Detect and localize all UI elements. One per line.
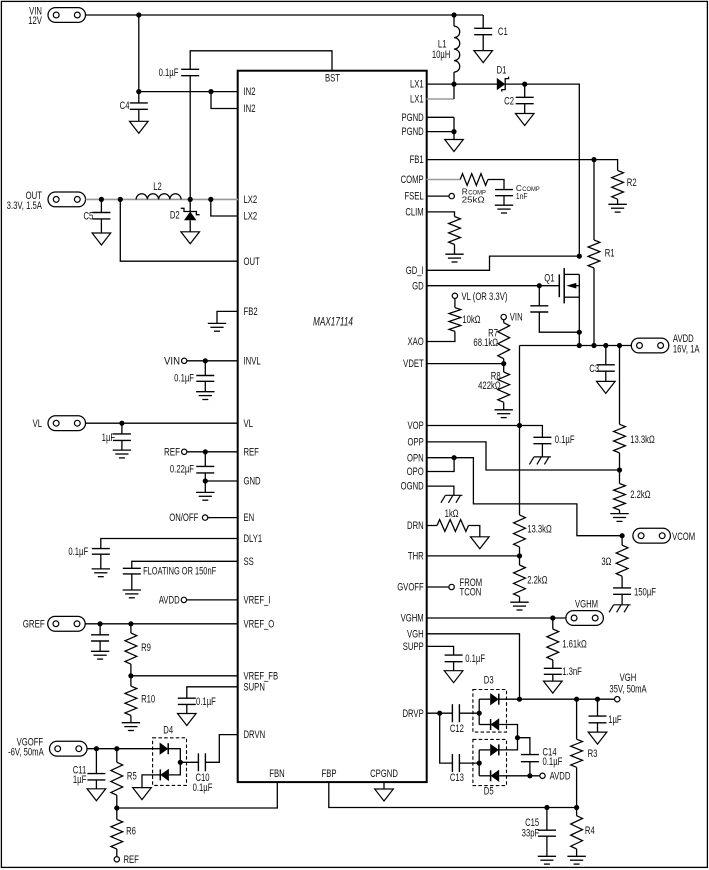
diode D3 upper [479,698,490,700]
svg-text:0.1µF: 0.1µF [174,372,194,385]
ground C5 [92,233,111,245]
svg-text:REF: REF [164,446,180,459]
svg-text:C2: C2 [504,95,514,108]
svg-text:SS: SS [244,556,254,569]
svg-text:1.3nF: 1.3nF [562,666,582,679]
wire D5 left leg [478,750,480,776]
ground CLIM resistor [445,253,463,255]
svg-text:GD_I: GD_I [406,265,424,278]
node junction VREF_FB [128,673,133,678]
capacitor C13 [451,754,453,772]
svg-text:LX1: LX1 [410,78,424,91]
svg-text:VIN: VIN [164,356,180,368]
resistor 13.3k VCOM upper [614,424,626,453]
connector J2 AVDD [631,338,669,353]
svg-text:CLIM: CLIM [405,206,423,219]
svg-text:VOP: VOP [407,420,423,433]
wire DRVN [205,735,238,763]
node junction D1-C2 [522,82,527,87]
resistor R2 [594,160,618,171]
resistor R3 [576,699,578,739]
svg-text:AVDD: AVDD [550,770,571,783]
wire PGND pin2 [427,131,455,133]
svg-text:R2: R2 [627,177,637,190]
svg-text:150µF: 150µF [634,586,656,599]
diode box D5 [473,739,507,785]
svg-text:C13: C13 [450,772,464,785]
node junction D5 leg [477,761,482,766]
wire LX1 pin1 [427,83,498,85]
svg-text:0.1µF: 0.1µF [68,546,88,559]
node junction VGHM [550,615,555,620]
svg-text:VL: VL [244,418,253,431]
wire D5 upper out [499,738,518,750]
wire C13 to D5 [459,762,479,764]
ground C15 [538,855,556,857]
node junction OPN-OPO [452,455,457,460]
svg-text:1nF: 1nF [516,191,528,201]
connector J4 VGHM [566,611,604,626]
ground CCOMP [495,204,513,206]
svg-text:10kΩ: 10kΩ [462,314,480,327]
node junction PGND [451,129,456,134]
node junction VDET [501,361,506,366]
diode D5 upper [479,749,490,751]
svg-text:C5: C5 [83,210,93,223]
svg-text:25kΩ: 25kΩ [462,195,485,204]
terminal REF stub [182,449,187,454]
resistor R6 [116,808,118,819]
capacitor C3 [605,346,607,365]
wire D4 lower gnd [142,775,160,788]
wire VGHM [427,617,566,619]
ground R8 [495,409,513,411]
terminal VIN INVL [182,358,187,363]
wire EN [208,517,238,519]
node junction THR [517,553,522,558]
svg-text:C12: C12 [450,723,464,736]
svg-text:VGH: VGH [407,628,424,641]
node junction rail-R1 [591,343,596,348]
capacitor REF 0.22uF [204,452,206,467]
node junction C11 [94,746,99,751]
wire LX2 rail (gray) [86,198,239,200]
node junction OUT feed [118,197,123,202]
wire FB2 [217,311,238,323]
svg-text:13.3kΩ: 13.3kΩ [527,523,552,536]
svg-text:68.1kΩ: 68.1kΩ [473,337,498,350]
wire GVOFF stub [427,586,449,588]
connector J3 VCOM [633,528,671,543]
connector J6 VL [48,416,86,431]
wire SUPP [427,646,454,655]
ground 1uF VGH [588,732,607,744]
wire PGND down [453,117,455,139]
svg-text:VIN: VIN [510,311,523,324]
svg-text:1µF: 1µF [73,774,87,787]
ground DLY1 cap [92,568,110,570]
connector J5 OUT [48,192,86,207]
wire C4 drop [138,15,140,92]
terminal GVOFF [449,584,454,589]
connector J8 VGOFF [50,741,88,756]
wire COMP (gray) [427,179,461,181]
svg-text:R10: R10 [141,693,155,706]
capacitor 1.3nF [544,667,562,669]
ground VCOM divider [610,513,628,515]
node junction VCOM [620,533,625,538]
capacitor DLY1 0.1uF [92,548,110,550]
svg-text:R4: R4 [585,825,595,838]
ground C2 [515,114,534,126]
wire D3 left leg [478,699,480,724]
ground 1.3nF [544,681,563,693]
ground FB2 [208,322,226,324]
svg-text:0.1µF: 0.1µF [196,696,216,709]
resistor R7 68.1k [503,320,505,323]
ground D2 [181,232,200,244]
node junction VOP [517,423,522,428]
svg-text:D2: D2 [170,209,180,222]
svg-text:3Ω: 3Ω [601,556,611,569]
ground SUPP cap [444,671,463,683]
wire VREF_O [85,623,238,625]
capacitor VL 1uF [121,423,123,434]
capacitor C4 [138,92,140,103]
node junction C14-AVDD [527,773,532,778]
wire PGND pin1 [427,116,455,118]
ground PGND [445,140,464,152]
wire LX2 pin2 link [211,199,238,216]
svg-text:OPO: OPO [407,466,424,479]
capacitor C10 0.1uF [180,761,198,763]
wire GD gate [427,285,560,287]
svg-text:0.1µF: 0.1µF [555,434,575,447]
node junction IN2 pins [208,89,213,94]
ground D4 [133,788,152,800]
terminal AVDD VREF_I [181,597,186,602]
capacitor BST 0.1uF [181,68,199,70]
resistor R1 [593,160,595,240]
resistor 1k DRN [437,520,469,532]
resistor R10 [130,676,132,686]
IC U1 MAX17114 body [238,71,427,782]
svg-text:1kΩ: 1kΩ [445,508,459,521]
svg-text:REF: REF [244,446,260,459]
resistor 2.2k THR lower [519,556,521,565]
resistor CLIM [449,217,461,245]
node junction OPP-divider [617,467,622,472]
ground DRN [471,537,490,549]
resistor R4 [576,808,578,816]
wire VL [86,422,239,424]
node junction FBP-R3R4 [574,805,579,810]
svg-text:INVL: INVL [244,355,261,368]
wire VIN rail [86,14,484,16]
ground INVL cap [196,391,214,393]
capacitor VOP 0.1uF [520,426,543,438]
node junction REF cap [203,449,208,454]
wire BST cap to LX2 [189,76,191,200]
capacitor C5 [100,199,102,212]
wire C12 to D3 [459,712,479,714]
svg-text:DRVP: DRVP [402,708,423,721]
wire VREF_I [187,599,238,601]
svg-text:IN2: IN2 [244,103,256,116]
svg-text:EN: EN [244,512,255,525]
ground VL cap [113,449,131,451]
resistor RCOMP 25k [460,174,488,186]
wire OPP [427,442,620,470]
node junction VGH-R3 [574,697,579,702]
node junction D2 [188,197,193,202]
svg-text:0.1µF: 0.1µF [543,756,563,769]
node junction cap-source [577,330,582,335]
wire CLIM [427,212,455,217]
resistor 3ohm [621,536,623,546]
svg-text:GVOFF: GVOFF [397,581,424,594]
node junction VGH-1uF [595,697,600,702]
capacitor C1 [482,15,484,28]
node junction VIN-L1 [451,12,456,17]
wire OUT pin [120,199,238,261]
svg-text:16V, 1A: 16V, 1A [673,343,700,356]
ground SS cap [123,589,141,591]
wire AVDD rail [520,345,632,347]
transistor Q1 PMOS [558,274,560,297]
svg-text:OPN: OPN [407,452,424,465]
terminal VGH output [615,697,620,702]
diode D5 lower [479,775,490,777]
resistor 10k XAO [454,299,456,308]
wire D1 out [505,84,579,256]
svg-text:0.1µF: 0.1µF [465,653,485,666]
resistor 2.2k VCOM lower [619,470,621,484]
wire rail to 13.3k [619,346,621,425]
ground CPGND [375,789,394,801]
node junction LX2 pins [208,197,213,202]
svg-text:D1: D1 [497,64,507,77]
wire THR [427,555,520,557]
svg-text:VCOM: VCOM [672,531,695,544]
ground R4 [567,855,585,857]
svg-text:BST: BST [325,72,340,85]
capacitor SUPN 0.1uF [178,697,196,699]
ground 150uF chassis [614,604,631,606]
svg-text:CPGND: CPGND [370,768,398,781]
svg-text:1.61kΩ: 1.61kΩ [562,638,587,651]
svg-text:R5: R5 [127,770,137,783]
svg-text:TCON: TCON [460,586,482,599]
svg-text:MAX17114: MAX17114 [313,316,353,329]
wire VGH [427,634,520,699]
node junction FB1 [591,157,596,162]
terminal FSEL [449,193,454,198]
connector J7 GREF [48,616,85,631]
terminal VIN R7 [501,314,506,319]
node junction C4-IN2 [136,89,141,94]
node junction D3-D5-C14 [515,735,520,740]
node junction GND [203,478,208,483]
svg-text:VGHM: VGHM [401,612,424,625]
svg-text:FBP: FBP [322,768,337,781]
svg-text:GREF: GREF [23,618,45,631]
node junction rail-C3 [603,343,608,348]
diode box D3 [473,690,507,733]
wire DLY1 [101,539,238,549]
inductor L2 [136,194,181,200]
wire OGND [427,486,454,495]
node junction D4 mid [178,760,183,765]
svg-text:PGND: PGND [401,112,423,125]
svg-text:422kΩ: 422kΩ [478,380,500,393]
node junction FBN-R6 [114,805,119,810]
wire INVL [187,360,238,362]
svg-text:REF: REF [124,854,140,867]
capacitor C11 1uF [95,749,97,774]
svg-text:AVDD: AVDD [159,594,180,607]
wire LX1 pin2 (gray) [427,98,455,100]
svg-text:FB1: FB1 [410,154,424,167]
wire DRVP [427,712,453,714]
svg-text:0.22µF: 0.22µF [170,463,194,476]
svg-text:L2: L2 [153,181,162,194]
svg-text:FB2: FB2 [244,306,258,319]
svg-text:12V: 12V [28,15,42,28]
node junction GD-cap [537,283,542,288]
capacitor Q1 gate-source [538,286,540,306]
wire DRN to gnd [469,526,480,537]
svg-text:OUT: OUT [244,256,260,269]
node junction C5 [99,197,104,202]
terminal VL (OR 3.3V) [452,293,457,298]
node junction rail-divider [617,343,622,348]
svg-text:VL: VL [33,418,42,431]
svg-text:VGHM: VGHM [575,598,598,611]
svg-text:COMP: COMP [401,174,424,187]
svg-text:3.3V, 1.5A: 3.3V, 1.5A [7,200,43,213]
wire VREF_FB [131,675,238,677]
wire CPGND [383,782,385,789]
capacitor 150uF [613,587,631,589]
svg-text:LX1: LX1 [410,93,424,106]
node junction R5 [114,746,119,751]
wire D5 lower out [499,775,540,777]
ground SUPN cap [178,714,197,726]
wire LX1 tie [453,84,455,99]
svg-text:XAO: XAO [407,336,423,349]
capacitor SS 150nF [123,567,141,569]
wire IN2 pin2 link [211,92,238,109]
svg-text:1µF: 1µF [102,432,116,445]
capacitor 1uF VGH [597,699,599,716]
capacitor C15 33pF [546,808,548,831]
wire DRN [427,525,438,527]
svg-text:LX2: LX2 [244,210,258,223]
wire REF [187,451,238,453]
svg-text:C1: C1 [498,26,508,39]
wire VGOFF [87,748,160,750]
svg-text:VDET: VDET [403,358,424,371]
resistor R8 422k [503,364,505,372]
capacitor C14 0.1uF [518,738,530,755]
ground C3 [597,381,616,393]
node junction VGH pin [517,697,522,702]
ground C1 [474,51,493,63]
diode D1 schottky [497,78,505,90]
node junction FBP-C15 [544,805,549,810]
wire Q1 source down [578,297,580,345]
wire D3 lower out [499,725,517,738]
capacitor INVL 0.1uF [204,361,206,376]
wire IN2 feed [139,91,238,93]
svg-text:D4: D4 [163,724,173,737]
diode D2 schottky [189,199,191,211]
svg-text:VL (OR 3.3V): VL (OR 3.3V) [462,291,508,304]
inductor L1 10uH [453,15,455,26]
node junction GREF cap [98,621,103,626]
svg-text:DRVN: DRVN [244,729,266,742]
svg-text:R6: R6 [126,825,136,838]
svg-text:1µF: 1µF [608,714,622,727]
ground R2 [608,203,626,205]
svg-text:D3: D3 [484,674,494,687]
wire FB1 [427,159,595,161]
wire FBP [329,782,577,808]
wire GND pin [205,480,238,482]
capacitor C12 [451,704,453,722]
svg-text:OPP: OPP [407,436,423,449]
resistor 13.3k THR upper [514,515,526,547]
node junction VL cap [119,421,124,426]
wire OPN [427,458,623,536]
connector J1 VIN [48,8,86,23]
wire GD_I [427,256,580,270]
ground R10 [122,722,140,724]
wire SS [132,561,238,568]
wire D4 upper out [168,749,180,763]
terminal ON/OFF [202,515,207,520]
resistor R5 [116,749,118,763]
node junction GD_I-AVDD line [577,254,582,259]
svg-text:35V, 50mA: 35V, 50mA [609,683,647,696]
svg-text:C4: C4 [120,100,130,113]
wire C13 feed [440,713,453,763]
svg-text:0.1µF: 0.1µF [159,67,179,80]
ground VOP cap chassis [534,456,551,458]
wire RCOMP to CCOMP [488,180,504,190]
svg-text:2.2kΩ: 2.2kΩ [527,574,547,587]
node junction INVL cap [203,358,208,363]
terminal REF bottom [114,857,119,862]
svg-text:SUPN: SUPN [244,681,265,694]
wire FSEL stub [427,195,449,197]
node junction R9 top [128,621,133,626]
node junction source-AVDD rail [577,343,582,348]
resistor 1.61k [552,618,554,629]
wire AVDD to VOP [519,346,521,515]
svg-text:OGND: OGND [401,480,424,493]
terminal AVDD D5 [540,773,545,778]
wire FBN [117,782,277,808]
svg-text:R1: R1 [605,247,615,260]
svg-text:R9: R9 [141,642,151,655]
svg-text:C3: C3 [589,363,599,376]
wire VGH rail [499,698,615,700]
diode box D4 [153,738,187,786]
svg-text:ON/OFF: ON/OFF [169,512,198,525]
svg-text:FLOATING OR 150nF: FLOATING OR 150nF [143,564,216,577]
